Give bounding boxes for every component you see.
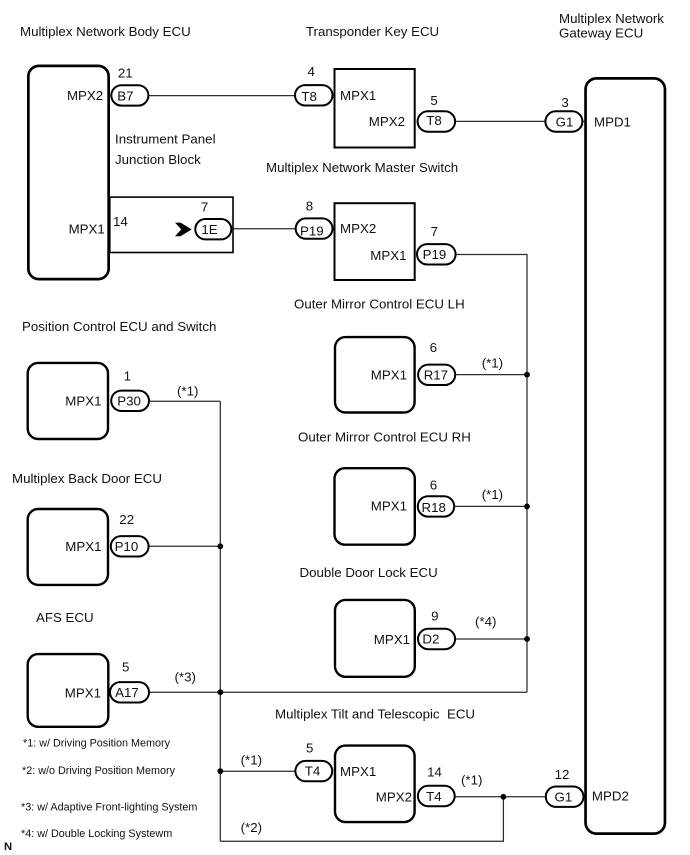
ECU box: Double Door Lock ECU — [335, 600, 415, 677]
ECU box: Multiplex Back Door ECU — [28, 509, 108, 585]
svg-text:(*1): (*1) — [241, 752, 262, 767]
pin number 22 at P10 — [119, 512, 134, 527]
svg-text:Gateway ECU: Gateway ECU — [559, 26, 643, 41]
svg-text:MPD1: MPD1 — [594, 114, 631, 129]
title: Multiplex Tilt and Telescopic ECU — [275, 706, 475, 721]
label (*1) on T4 right wire — [461, 773, 482, 788]
pin number 8 at P19 left — [306, 198, 313, 213]
pin number 3 at G1 top — [561, 95, 568, 110]
footnote *1 — [23, 738, 171, 750]
svg-text:4: 4 — [307, 64, 314, 79]
wire P30 to left bus — [149, 400, 220, 402]
svg-text:Multiplex Network Master Switc: Multiplex Network Master Switch — [266, 160, 458, 175]
wire bottom bypass — [220, 797, 503, 841]
svg-text:Outer Mirror Control ECU RH: Outer Mirror Control ECU RH — [298, 430, 471, 445]
svg-text:Outer Mirror Control ECU LH: Outer Mirror Control ECU LH — [294, 297, 465, 312]
wire D2 to right bus — [455, 638, 527, 640]
svg-text:T4: T4 — [426, 789, 442, 804]
svg-text:Multiplex Network Body ECU: Multiplex Network Body ECU — [20, 24, 191, 39]
connector pin P19 right — [417, 244, 456, 264]
wire left bus to T4 left — [220, 770, 296, 772]
svg-text:MPX1: MPX1 — [370, 248, 406, 263]
svg-text:P10: P10 — [115, 539, 139, 554]
svg-text:(*3): (*3) — [175, 669, 196, 684]
connector pin B7 — [111, 85, 148, 105]
label (*4) on D2 wire — [475, 614, 496, 629]
label (*1) on R17 wire — [482, 356, 503, 371]
pin number 7 at 1E — [201, 200, 208, 215]
title: Gateway ECU — [559, 26, 643, 41]
label 14 on junction block input — [113, 214, 128, 229]
title: Double Door Lock ECU — [300, 565, 438, 580]
connector pin D2 — [418, 629, 455, 649]
pin number 5 at T4 left — [306, 741, 313, 756]
junction dot left bus at P10 — [217, 543, 223, 549]
ECU box: Position Control ECU and Switch — [28, 363, 108, 439]
svg-text:14: 14 — [113, 214, 128, 229]
svg-text:7: 7 — [201, 200, 208, 215]
wire R17 to right bus — [455, 374, 527, 376]
svg-text:MPX1: MPX1 — [374, 632, 410, 647]
wire R18 to right bus — [454, 505, 527, 507]
svg-text:R18: R18 — [421, 500, 445, 515]
svg-text:MPX1: MPX1 — [65, 539, 101, 554]
label (*1) on P30 wire — [177, 384, 198, 399]
svg-text:MPX1: MPX1 — [340, 764, 376, 779]
wire 1E to P19 left — [231, 228, 296, 230]
pin number 12 at G1 bottom — [555, 767, 570, 782]
svg-text:R17: R17 — [424, 367, 448, 382]
junction dot T4-G1 wire at bypass — [501, 794, 507, 800]
footnote *2 — [22, 765, 176, 777]
junction dot left bus at T4 wire — [217, 768, 223, 774]
svg-text:5: 5 — [122, 660, 129, 675]
pin number 4 at T8 left — [307, 64, 314, 79]
pin number 1 at P30 — [124, 369, 131, 384]
svg-text:T8: T8 — [426, 113, 442, 128]
pin number 14 at T4 right — [427, 764, 442, 779]
svg-text:MPD2: MPD2 — [592, 789, 629, 804]
svg-text:7: 7 — [431, 224, 438, 239]
pin number 21 at B7 — [118, 65, 133, 80]
svg-text:5: 5 — [430, 93, 437, 108]
title: Outer Mirror Control ECU RH — [298, 430, 471, 445]
connector pin T4 left — [295, 761, 332, 781]
ECU box: Multiplex Network Master Switch — [335, 203, 415, 280]
svg-text:G1: G1 — [556, 114, 574, 129]
svg-text:AFS ECU: AFS ECU — [36, 610, 94, 625]
title: Position Control ECU and Switch — [22, 319, 216, 334]
svg-text:MPX1: MPX1 — [371, 499, 407, 514]
junction dot left bus at A17 wire — [217, 689, 223, 695]
title: Transponder Key ECU — [306, 24, 439, 39]
svg-text:8: 8 — [306, 198, 313, 213]
wire P19 right to right bus — [456, 255, 528, 375]
ECU box: Outer Mirror Control ECU RH — [335, 468, 415, 545]
svg-text:MPX2: MPX2 — [369, 114, 405, 129]
svg-text:A17: A17 — [115, 685, 139, 700]
svg-text:P19: P19 — [300, 224, 324, 239]
svg-text:6: 6 — [430, 477, 437, 492]
svg-text:14: 14 — [427, 764, 442, 779]
label (*3) on A17 wire — [175, 669, 196, 684]
svg-text:MPX2: MPX2 — [340, 221, 376, 236]
title: Multiplex Back Door ECU — [12, 471, 162, 486]
connector pin P30 — [111, 391, 149, 411]
svg-text:3: 3 — [561, 95, 568, 110]
connector pin 1E — [195, 219, 231, 239]
label (*1) on T4 left wire — [241, 752, 262, 767]
svg-text:P19: P19 — [423, 247, 447, 262]
svg-text:9: 9 — [431, 609, 438, 624]
svg-text:MPX1: MPX1 — [340, 88, 376, 103]
svg-text:*3: w/ Adaptive Front-lighting: *3: w/ Adaptive Front-lighting System — [21, 801, 197, 813]
ECU box: Outer Mirror Control ECU LH — [335, 337, 415, 412]
wire T8 right to G1 top — [455, 120, 546, 122]
connector pin G1 top — [545, 111, 582, 131]
pin number 7 at P19 right — [431, 224, 438, 239]
svg-text:Multiplex Back Door ECU: Multiplex Back Door ECU — [12, 471, 162, 486]
svg-text:(*1): (*1) — [482, 487, 503, 502]
connector pin A17 — [110, 682, 149, 702]
title: Multiplex Network — [559, 11, 664, 26]
svg-text:G1: G1 — [555, 790, 573, 805]
connector pin P10 — [111, 536, 149, 556]
svg-text:T4: T4 — [305, 763, 321, 778]
pin number 5 at A17 — [122, 660, 129, 675]
svg-text:6: 6 — [430, 340, 437, 355]
svg-text:Multiplex Tilt and Telescopic: Multiplex Tilt and Telescopic ECU — [275, 706, 475, 721]
right bus vertical — [526, 375, 528, 693]
svg-text:N: N — [4, 841, 12, 853]
label (*2) on bypass wire — [241, 820, 262, 835]
svg-text:MPX1: MPX1 — [65, 394, 101, 409]
wire P10 to left bus — [149, 545, 221, 547]
junction block: Instrument Panel Junction Block — [110, 197, 233, 252]
pin number 5 at T8 right — [430, 93, 437, 108]
title: Multiplex Network Body ECU — [20, 24, 191, 39]
connector pin R18 — [418, 496, 454, 516]
svg-text:MPX2: MPX2 — [376, 790, 412, 805]
connector pin R17 — [418, 365, 455, 385]
page marker N — [4, 841, 12, 853]
footnote *4 — [21, 828, 172, 840]
svg-text:T8: T8 — [301, 89, 317, 104]
wire G1 top to gateway box — [582, 120, 586, 122]
svg-text:P30: P30 — [117, 394, 141, 409]
title: Junction Block — [115, 152, 201, 167]
junction dot right bus at D2 — [524, 636, 530, 642]
svg-text:D2: D2 — [422, 632, 439, 647]
wire B7 to T8 left — [148, 95, 295, 97]
wire A17 to right bus corner — [149, 691, 527, 693]
connector pin T8 left — [295, 85, 333, 105]
svg-text:MPX1: MPX1 — [371, 367, 407, 382]
pin number 9 at D2 — [431, 609, 438, 624]
svg-text:12: 12 — [555, 767, 570, 782]
ECU box: Transponder Key ECU — [335, 69, 415, 148]
svg-text:Position Control ECU and Switc: Position Control ECU and Switch — [22, 319, 216, 334]
svg-text:MPX2: MPX2 — [67, 88, 103, 103]
ECU box: AFS ECU — [28, 654, 109, 727]
svg-text:1: 1 — [124, 369, 131, 384]
ECU box: Multiplex Network Body ECU — [28, 66, 108, 279]
wire MPX1 to 1E — [109, 228, 195, 230]
ECU box: Multiplex Tilt and Telescopic ECU — [335, 746, 415, 823]
svg-text:(*4): (*4) — [475, 614, 496, 629]
svg-text:Transponder Key ECU: Transponder Key ECU — [306, 24, 439, 39]
svg-text:MPX1: MPX1 — [69, 222, 105, 237]
connector pin T4 right — [418, 786, 455, 806]
svg-text:Double Door Lock ECU: Double Door Lock ECU — [300, 565, 438, 580]
connector pin P19 left — [296, 218, 333, 238]
connector pin T8 right — [418, 111, 456, 131]
junction dot right bus at R18 — [524, 504, 530, 510]
svg-text:5: 5 — [306, 741, 313, 756]
svg-text:(*1): (*1) — [177, 384, 198, 399]
svg-text:B7: B7 — [117, 89, 133, 104]
label (*1) on R18 wire — [482, 487, 503, 502]
junction dot right bus at R17 — [524, 372, 530, 378]
svg-text:MPX1: MPX1 — [65, 685, 101, 700]
svg-text:(*2): (*2) — [241, 820, 262, 835]
title: Instrument Panel — [115, 131, 216, 146]
left bus vertical — [219, 401, 221, 841]
svg-text:*1: w/ Driving Position Memory: *1: w/ Driving Position Memory — [23, 738, 171, 750]
pin number 6 at R17 — [430, 340, 437, 355]
svg-text:*2: w/o Driving Position Memor: *2: w/o Driving Position Memory — [22, 765, 176, 777]
pin number 6 at R18 — [430, 477, 437, 492]
svg-text:1E: 1E — [201, 222, 217, 237]
svg-text:21: 21 — [118, 65, 133, 80]
wire T4 right to G1 bottom — [455, 796, 546, 798]
title: Outer Mirror Control ECU LH — [294, 297, 465, 312]
svg-text:Multiplex Network: Multiplex Network — [559, 11, 664, 26]
footnote *3 — [21, 801, 197, 813]
connector pin G1 bottom — [546, 787, 584, 807]
svg-text:(*1): (*1) — [482, 356, 503, 371]
arrow on wire in junction block — [175, 223, 192, 237]
title: AFS ECU — [36, 610, 94, 625]
svg-text:22: 22 — [119, 512, 134, 527]
svg-text:(*1): (*1) — [461, 773, 482, 788]
svg-text:Junction Block: Junction Block — [115, 152, 201, 167]
title: Multiplex Network Master Switch — [266, 160, 458, 175]
ECU box: Multiplex Network Gateway ECU — [586, 78, 665, 833]
svg-text:*4: w/ Double Locking Systewm: *4: w/ Double Locking Systewm — [21, 828, 172, 840]
svg-text:Instrument Panel: Instrument Panel — [115, 131, 216, 146]
